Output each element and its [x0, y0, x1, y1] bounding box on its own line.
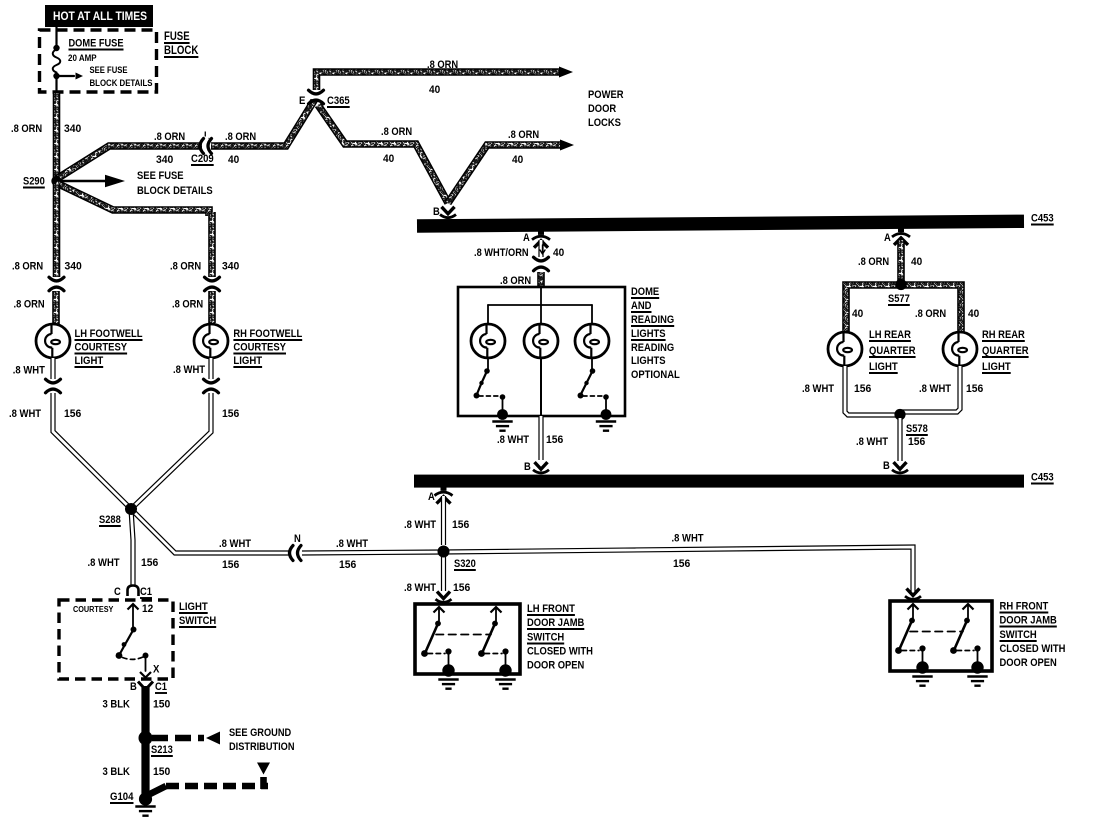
dashed contact LH jamb left — [428, 653, 445, 655]
connector in RH footwell feed — [203, 282, 222, 286]
svg-text:S290: S290 — [23, 176, 45, 188]
dashed contact link — [479, 395, 498, 397]
wire .8 WHT 156 LH rear to S578 — [845, 366, 898, 415]
wire .8 WHT 156 dome to C453 — [538, 416, 543, 460]
svg-text:LIGHT: LIGHT — [982, 361, 1011, 373]
switch pivot — [474, 393, 480, 399]
svg-text:SEE FUSE: SEE FUSE — [137, 170, 184, 182]
fuse block dashed box — [40, 30, 157, 92]
switch pivot — [116, 652, 123, 659]
dashed gang link RH jamb — [910, 631, 963, 633]
svg-text:.8 ORN: .8 ORN — [11, 123, 42, 135]
svg-text:.8 ORN: .8 ORN — [858, 256, 889, 268]
splice S320 — [438, 546, 450, 558]
ground LH jamb right — [495, 678, 515, 680]
connector A below C453 to dome lights — [538, 231, 544, 235]
svg-text:DOME FUSE: DOME FUSE — [69, 38, 124, 50]
connector B into C453 lower — [531, 470, 551, 474]
connector C365 cavity E — [307, 95, 326, 99]
wire .8 WHT 156 C453-A to S320 — [441, 496, 446, 545]
lamp dome — [524, 324, 558, 358]
ground G104 dot — [139, 792, 152, 805]
svg-text:.8 WHT: .8 WHT — [13, 365, 45, 377]
svg-text:A: A — [523, 232, 530, 244]
svg-text:40: 40 — [512, 154, 523, 166]
dashed contact link — [583, 395, 602, 397]
switch blade RH jamb right — [955, 621, 968, 650]
svg-text:DOOR OPEN: DOOR OPEN — [527, 660, 584, 672]
ground dot LH jamb left — [442, 664, 454, 676]
wire to left reading lamp — [487, 305, 489, 324]
arrow RH jamb left — [908, 604, 919, 610]
svg-text:RH FOOTWELL: RH FOOTWELL — [233, 328, 302, 340]
svg-text:LH FOOTWELL: LH FOOTWELL — [75, 328, 143, 340]
svg-text:CLOSED WITH: CLOSED WITH — [527, 646, 593, 658]
svg-text:LIGHTS: LIGHTS — [631, 328, 666, 340]
svg-text:LH FRONT: LH FRONT — [527, 603, 575, 615]
svg-text:B: B — [524, 461, 531, 473]
wire from hot feed to fuse — [55, 27, 57, 47]
switch pivot RH jamb right — [950, 647, 957, 654]
svg-text:340: 340 — [65, 261, 82, 273]
lamp reading right — [575, 324, 609, 358]
svg-text:AND: AND — [631, 300, 652, 312]
svg-text:156: 156 — [339, 559, 356, 571]
wire .8 ORN into dome lamp assembly — [537, 272, 545, 287]
svg-text:.8 ORN: .8 ORN — [225, 131, 256, 143]
svg-text:C209: C209 — [191, 153, 214, 165]
svg-text:E: E — [299, 95, 306, 107]
ground reading left — [492, 420, 512, 422]
svg-text:COURTESY: COURTESY — [73, 604, 114, 614]
connector C209 cavity N — [294, 544, 298, 563]
switch terminal LH jamb right — [492, 621, 498, 627]
svg-text:.8 WHT: .8 WHT — [173, 364, 205, 376]
svg-text:SEE GROUND: SEE GROUND — [229, 727, 291, 739]
svg-text:DOOR JAMB: DOOR JAMB — [527, 617, 584, 629]
svg-text:40: 40 — [968, 308, 979, 320]
switch blade reading left — [477, 371, 487, 394]
wire to ground RH jamb left — [922, 649, 924, 665]
svg-text:X: X — [153, 664, 160, 676]
svg-text:150: 150 — [153, 699, 170, 711]
switch contact — [500, 394, 506, 400]
svg-text:.8 ORN: .8 ORN — [381, 126, 412, 138]
splice S213 — [139, 731, 153, 745]
svg-text:150: 150 — [153, 766, 170, 778]
svg-text:LIGHT: LIGHT — [869, 361, 898, 373]
wire .8 ORN 40 to power door locks — [317, 72, 560, 90]
switch contact LH jamb left — [445, 648, 451, 654]
connector C1 cavity B flare — [138, 682, 153, 689]
arrow cavity X — [140, 672, 151, 678]
svg-text:RH REAR: RH REAR — [982, 329, 1025, 341]
wire LH jamb right — [495, 608, 497, 621]
switch blade RH jamb left — [900, 621, 913, 650]
svg-text:340: 340 — [222, 261, 239, 273]
svg-text:.8 ORN: .8 ORN — [508, 129, 539, 141]
svg-text:SWITCH: SWITCH — [527, 632, 564, 644]
svg-text:12: 12 — [142, 603, 153, 615]
svg-text:3 BLK: 3 BLK — [103, 766, 130, 778]
see fuse details arrow line — [59, 75, 74, 77]
dashed wire to ground distribution — [152, 735, 204, 742]
wire .8 WHT 156 S320 to LH door jamb switch — [441, 557, 446, 591]
svg-text:340: 340 — [64, 123, 81, 135]
svg-text:BLOCK DETAILS: BLOCK DETAILS — [137, 185, 213, 197]
svg-text:DOOR OPEN: DOOR OPEN — [1000, 657, 1057, 669]
wire .8 WHT 156 RH to S288 — [131, 393, 211, 509]
svg-text:SWITCH: SWITCH — [1000, 629, 1037, 641]
wire lamp to switch — [591, 358, 593, 369]
switch pivot — [578, 393, 584, 399]
connector bus C453 (lower) — [414, 475, 1024, 488]
switch contact LH jamb right — [502, 648, 508, 654]
wire .8 WHT 156 S288 to C209 — [131, 509, 291, 553]
connector into RH door jamb switch — [903, 596, 923, 600]
switch blade joint — [584, 381, 588, 385]
wire .8 WHT 156 S578 to C453 — [897, 418, 902, 461]
wire to ground RH jamb right — [977, 649, 979, 665]
wire .8 WHT from LH footwell lamp — [50, 358, 55, 379]
switch terminal — [590, 368, 596, 374]
wire .8 ORN 340 to RH footwell — [57, 183, 210, 216]
svg-text:DOOR JAMB: DOOR JAMB — [1000, 615, 1057, 627]
switch contact RH jamb right — [974, 645, 980, 651]
svg-text:.8 ORN: .8 ORN — [427, 59, 458, 71]
arrowhead see ground distribution — [206, 732, 220, 745]
svg-text:.8 ORN: .8 ORN — [170, 261, 201, 273]
svg-text:S578: S578 — [906, 423, 928, 435]
svg-text:DISTRIBUTION: DISTRIBUTION — [229, 741, 295, 753]
wire .8 ORN 40 C209 to C365 — [211, 99, 315, 146]
dashed contact LH jamb right — [485, 653, 502, 655]
ground terminal dot — [497, 409, 508, 420]
svg-text:S577: S577 — [888, 293, 910, 305]
svg-text:156: 156 — [546, 434, 563, 446]
svg-text:READING: READING — [631, 314, 674, 326]
connector A below C453 — [441, 487, 447, 491]
dome and reading lights box — [458, 287, 625, 416]
dashed wire ground distribution branch — [166, 783, 268, 790]
wire .8 ORN 40 V to power door locks — [448, 145, 560, 203]
splice S577 — [895, 279, 906, 290]
switch blade LH jamb right — [483, 624, 496, 653]
wire .8 WHT from RH footwell lamp — [208, 358, 213, 379]
svg-text:C453: C453 — [1031, 213, 1054, 225]
svg-text:SWITCH: SWITCH — [179, 615, 216, 627]
wire lamp to switch — [487, 358, 489, 369]
svg-text:.8 WHT: .8 WHT — [336, 538, 368, 550]
svg-text:C1: C1 — [140, 586, 152, 598]
splice S578 — [894, 409, 905, 420]
connector bus C453 (upper) — [417, 221, 1024, 226]
arrowhead down (ground distribution) — [257, 763, 270, 775]
svg-text:COURTESY: COURTESY — [75, 342, 128, 354]
wire fuse to block exit — [55, 77, 57, 92]
see fuse block details line — [62, 180, 106, 183]
svg-text:40: 40 — [429, 84, 440, 96]
switch elbow — [122, 642, 127, 647]
wire .8 ORN 40 S577 to rear lamps — [846, 285, 961, 332]
wire to cavity X — [145, 656, 147, 671]
svg-text:40: 40 — [852, 308, 863, 320]
dashed wire vertical piece — [260, 777, 267, 789]
svg-text:.8 ORN: .8 ORN — [500, 275, 531, 287]
svg-text:BLOCK: BLOCK — [164, 45, 199, 57]
svg-text:156: 156 — [673, 558, 690, 570]
svg-text:.8 WHT: .8 WHT — [497, 434, 529, 446]
svg-text:340: 340 — [156, 154, 173, 166]
lamp RH footwell courtesy light — [194, 324, 228, 358]
wire LH jamb left — [438, 608, 440, 621]
svg-text:.8 WHT: .8 WHT — [404, 519, 436, 531]
ground reading right — [596, 420, 616, 422]
svg-text:LIGHT: LIGHT — [233, 355, 262, 367]
svg-text:40: 40 — [228, 154, 239, 166]
ground dot LH jamb right — [499, 664, 511, 676]
wire contact to ground — [605, 398, 607, 411]
wire 3 BLK 150 — [141, 686, 149, 796]
svg-text:COURTESY: COURTESY — [233, 342, 286, 354]
dashed contact RH jamb right — [957, 650, 974, 652]
switch terminal RH jamb right — [964, 618, 970, 624]
wire .8 ORN 40 from C365 down to V — [318, 105, 448, 203]
svg-text:LOCKS: LOCKS — [588, 117, 621, 129]
svg-text:DOOR: DOOR — [588, 103, 616, 115]
splice S290 — [51, 176, 61, 186]
svg-text:156: 156 — [222, 559, 239, 571]
switch pivot LH jamb right — [478, 650, 485, 657]
wire .8 WHT 156 RH rear to S578 — [902, 366, 960, 412]
svg-text:LIGHT: LIGHT — [75, 355, 104, 367]
dashed contact arc — [123, 657, 144, 659]
svg-text:156: 156 — [854, 383, 871, 395]
switch blade light switch — [120, 630, 134, 655]
ground RH jamb right — [967, 675, 987, 677]
ground terminal dot — [601, 409, 612, 420]
switch blade LH jamb left — [426, 624, 439, 653]
wire .8 ORN 340 vertical — [208, 212, 216, 277]
svg-text:.8 ORN: .8 ORN — [172, 299, 203, 311]
svg-text:B: B — [883, 460, 890, 472]
wire .8 WHT 156 C209 to S320 — [302, 552, 443, 553]
lamp LH rear quarter light — [828, 332, 862, 366]
arrow LH jamb left — [434, 607, 445, 613]
svg-text:.8 ORN: .8 ORN — [14, 299, 45, 311]
fuse DOME FUSE element — [53, 50, 61, 75]
svg-text:.8 ORN: .8 ORN — [154, 131, 185, 143]
connector B into C453 lower (rear) — [890, 470, 910, 474]
svg-text:S213: S213 — [151, 744, 173, 756]
svg-text:POWER: POWER — [588, 89, 624, 101]
ground dot RH jamb left — [916, 661, 928, 673]
wire .8 ORN to RH footwell lamp — [208, 291, 216, 323]
see fuse details arrowhead — [76, 73, 84, 80]
svg-text:.8 ORN: .8 ORN — [12, 261, 43, 273]
wire dome center feed — [540, 287, 542, 324]
svg-text:.8 WHT/ORN: .8 WHT/ORN — [474, 247, 529, 259]
switch contact RH jamb left — [919, 645, 925, 651]
svg-text:156: 156 — [452, 519, 469, 531]
svg-text:156: 156 — [141, 557, 158, 569]
svg-text:LIGHT: LIGHT — [179, 601, 208, 613]
ground RH jamb left — [912, 675, 932, 677]
svg-text:156: 156 — [222, 408, 239, 420]
svg-text:.8 ORN: .8 ORN — [915, 308, 946, 320]
svg-text:A: A — [428, 491, 435, 503]
svg-text:LH REAR: LH REAR — [869, 329, 911, 341]
wire .8 WHT 156 S288 to light switch — [131, 509, 133, 585]
svg-text:N: N — [294, 533, 301, 545]
svg-text:QUARTER: QUARTER — [982, 345, 1029, 357]
arrow LH jamb right — [491, 607, 502, 613]
direction arrow in wire — [540, 245, 545, 254]
lamp RH rear quarter light — [943, 332, 977, 366]
switch pivot LH jamb left — [421, 650, 428, 657]
connector C1 cavity C cap — [128, 586, 139, 597]
in-line connector WHT/ORN to ORN — [532, 262, 551, 266]
svg-text:.8 WHT: .8 WHT — [219, 538, 251, 550]
svg-text:LIGHTS: LIGHTS — [631, 355, 666, 367]
svg-text:G104: G104 — [110, 791, 134, 803]
dashed gang link LH jamb — [436, 634, 491, 636]
splice S288 — [125, 503, 137, 515]
svg-text:HOT AT ALL TIMES: HOT AT ALL TIMES — [53, 9, 147, 23]
lamp LH footwell courtesy light — [36, 324, 70, 358]
switch terminal — [484, 368, 490, 374]
svg-text:20 AMP: 20 AMP — [68, 53, 97, 64]
svg-text:40: 40 — [383, 153, 394, 165]
svg-text:.8 WHT: .8 WHT — [404, 582, 436, 594]
switch pivot RH jamb left — [895, 647, 902, 654]
switch contact — [143, 653, 149, 659]
svg-text:.8 WHT: .8 WHT — [802, 383, 834, 395]
light switch dashed box — [59, 600, 173, 679]
svg-text:OPTIONAL: OPTIONAL — [631, 369, 680, 381]
svg-text:156: 156 — [908, 436, 925, 448]
svg-text:C: C — [114, 586, 121, 598]
wire to right reading lamp — [591, 305, 593, 324]
svg-text:A: A — [884, 232, 891, 244]
svg-text:.8 WHT: .8 WHT — [9, 408, 41, 420]
ground LH jamb left — [438, 678, 458, 680]
fuse terminal top — [53, 45, 59, 51]
wire contact to ground — [502, 398, 504, 411]
LH front door jamb switch box — [415, 604, 520, 674]
wire to ground LH jamb left — [448, 652, 450, 668]
wire RH jamb right — [967, 605, 969, 618]
svg-text:3 BLK: 3 BLK — [103, 699, 130, 711]
wire dome internal rail — [488, 304, 592, 306]
wire .8 WHT 156 S320 to RH door jamb switch — [443, 547, 913, 594]
svg-text:C1: C1 — [155, 681, 167, 693]
arrowhead to power door locks (top) — [559, 67, 573, 78]
svg-text:40: 40 — [911, 256, 922, 268]
svg-text:S320: S320 — [454, 558, 476, 570]
wire RH jamb left — [912, 605, 914, 618]
svg-text:.8 WHT: .8 WHT — [856, 436, 888, 448]
svg-text:SEE FUSE: SEE FUSE — [90, 65, 128, 76]
wire .8 ORN 340 from fuse — [53, 93, 61, 178]
svg-text:C365: C365 — [327, 95, 350, 107]
connector in LH footwell feed — [47, 282, 66, 286]
lamp reading left — [471, 324, 505, 358]
arrow courtesy feed — [128, 604, 139, 610]
wire .8 ORN 340 to C209 — [57, 146, 203, 179]
fuse terminal bottom — [53, 73, 59, 79]
svg-text:FUSE: FUSE — [164, 31, 190, 43]
switch blade reading right — [581, 371, 593, 394]
svg-text:B: B — [130, 681, 137, 693]
dashed contact RH jamb left — [902, 650, 919, 652]
wire .8 ORN to LH footwell lamp — [52, 291, 60, 325]
svg-text:156: 156 — [966, 383, 983, 395]
switch terminal — [131, 627, 137, 633]
switch blade joint — [479, 381, 483, 385]
ground dot RH jamb right — [971, 661, 983, 673]
wire switch feed — [132, 605, 134, 627]
wire .8 ORN 340 below S290 — [53, 184, 61, 277]
connector in RH footwell return — [202, 384, 221, 388]
svg-text:156: 156 — [64, 408, 81, 420]
svg-text:BLOCK DETAILS: BLOCK DETAILS — [90, 78, 153, 89]
svg-text:.8 WHT: .8 WHT — [672, 533, 704, 545]
switch contact — [603, 394, 609, 400]
arrowhead to power door locks (lower) — [560, 140, 574, 151]
see fuse block details arrowhead — [105, 175, 125, 188]
arrow RH jamb right — [963, 604, 974, 610]
wire .8 WHT/ORN 40 — [538, 240, 543, 257]
switch terminal RH jamb left — [909, 618, 915, 624]
svg-text:40: 40 — [553, 247, 564, 259]
connector A below C453 to rear quarter — [898, 228, 904, 232]
svg-text:C453: C453 — [1031, 472, 1054, 484]
hot-at-all-times box — [45, 5, 153, 27]
connector in LH footwell return — [44, 384, 63, 388]
wire stub to ground distribution branch — [148, 786, 166, 795]
connector C209 cavity L — [204, 137, 208, 156]
wire dome lamp internal return — [540, 358, 542, 415]
svg-text:.8 WHT: .8 WHT — [88, 557, 120, 569]
wire .8 ORN 40 to S577 — [897, 240, 905, 281]
wire to ground LH jamb right — [505, 652, 507, 668]
svg-text:DOME: DOME — [631, 286, 660, 298]
svg-text:READING: READING — [631, 342, 674, 354]
svg-text:.8 WHT: .8 WHT — [919, 383, 951, 395]
switch terminal LH jamb left — [435, 621, 441, 627]
connector B into C453 — [438, 215, 458, 219]
svg-text:156: 156 — [453, 582, 470, 594]
svg-text:QUARTER: QUARTER — [869, 345, 916, 357]
svg-text:RH FRONT: RH FRONT — [1000, 601, 1049, 613]
ground G104 — [135, 805, 155, 807]
wire .8 WHT 156 LH to S288 — [53, 393, 131, 509]
connector into LH door jamb switch — [434, 599, 454, 603]
RH front door jamb switch box — [890, 601, 992, 671]
svg-text:CLOSED WITH: CLOSED WITH — [1000, 643, 1066, 655]
svg-text:S288: S288 — [99, 514, 121, 526]
